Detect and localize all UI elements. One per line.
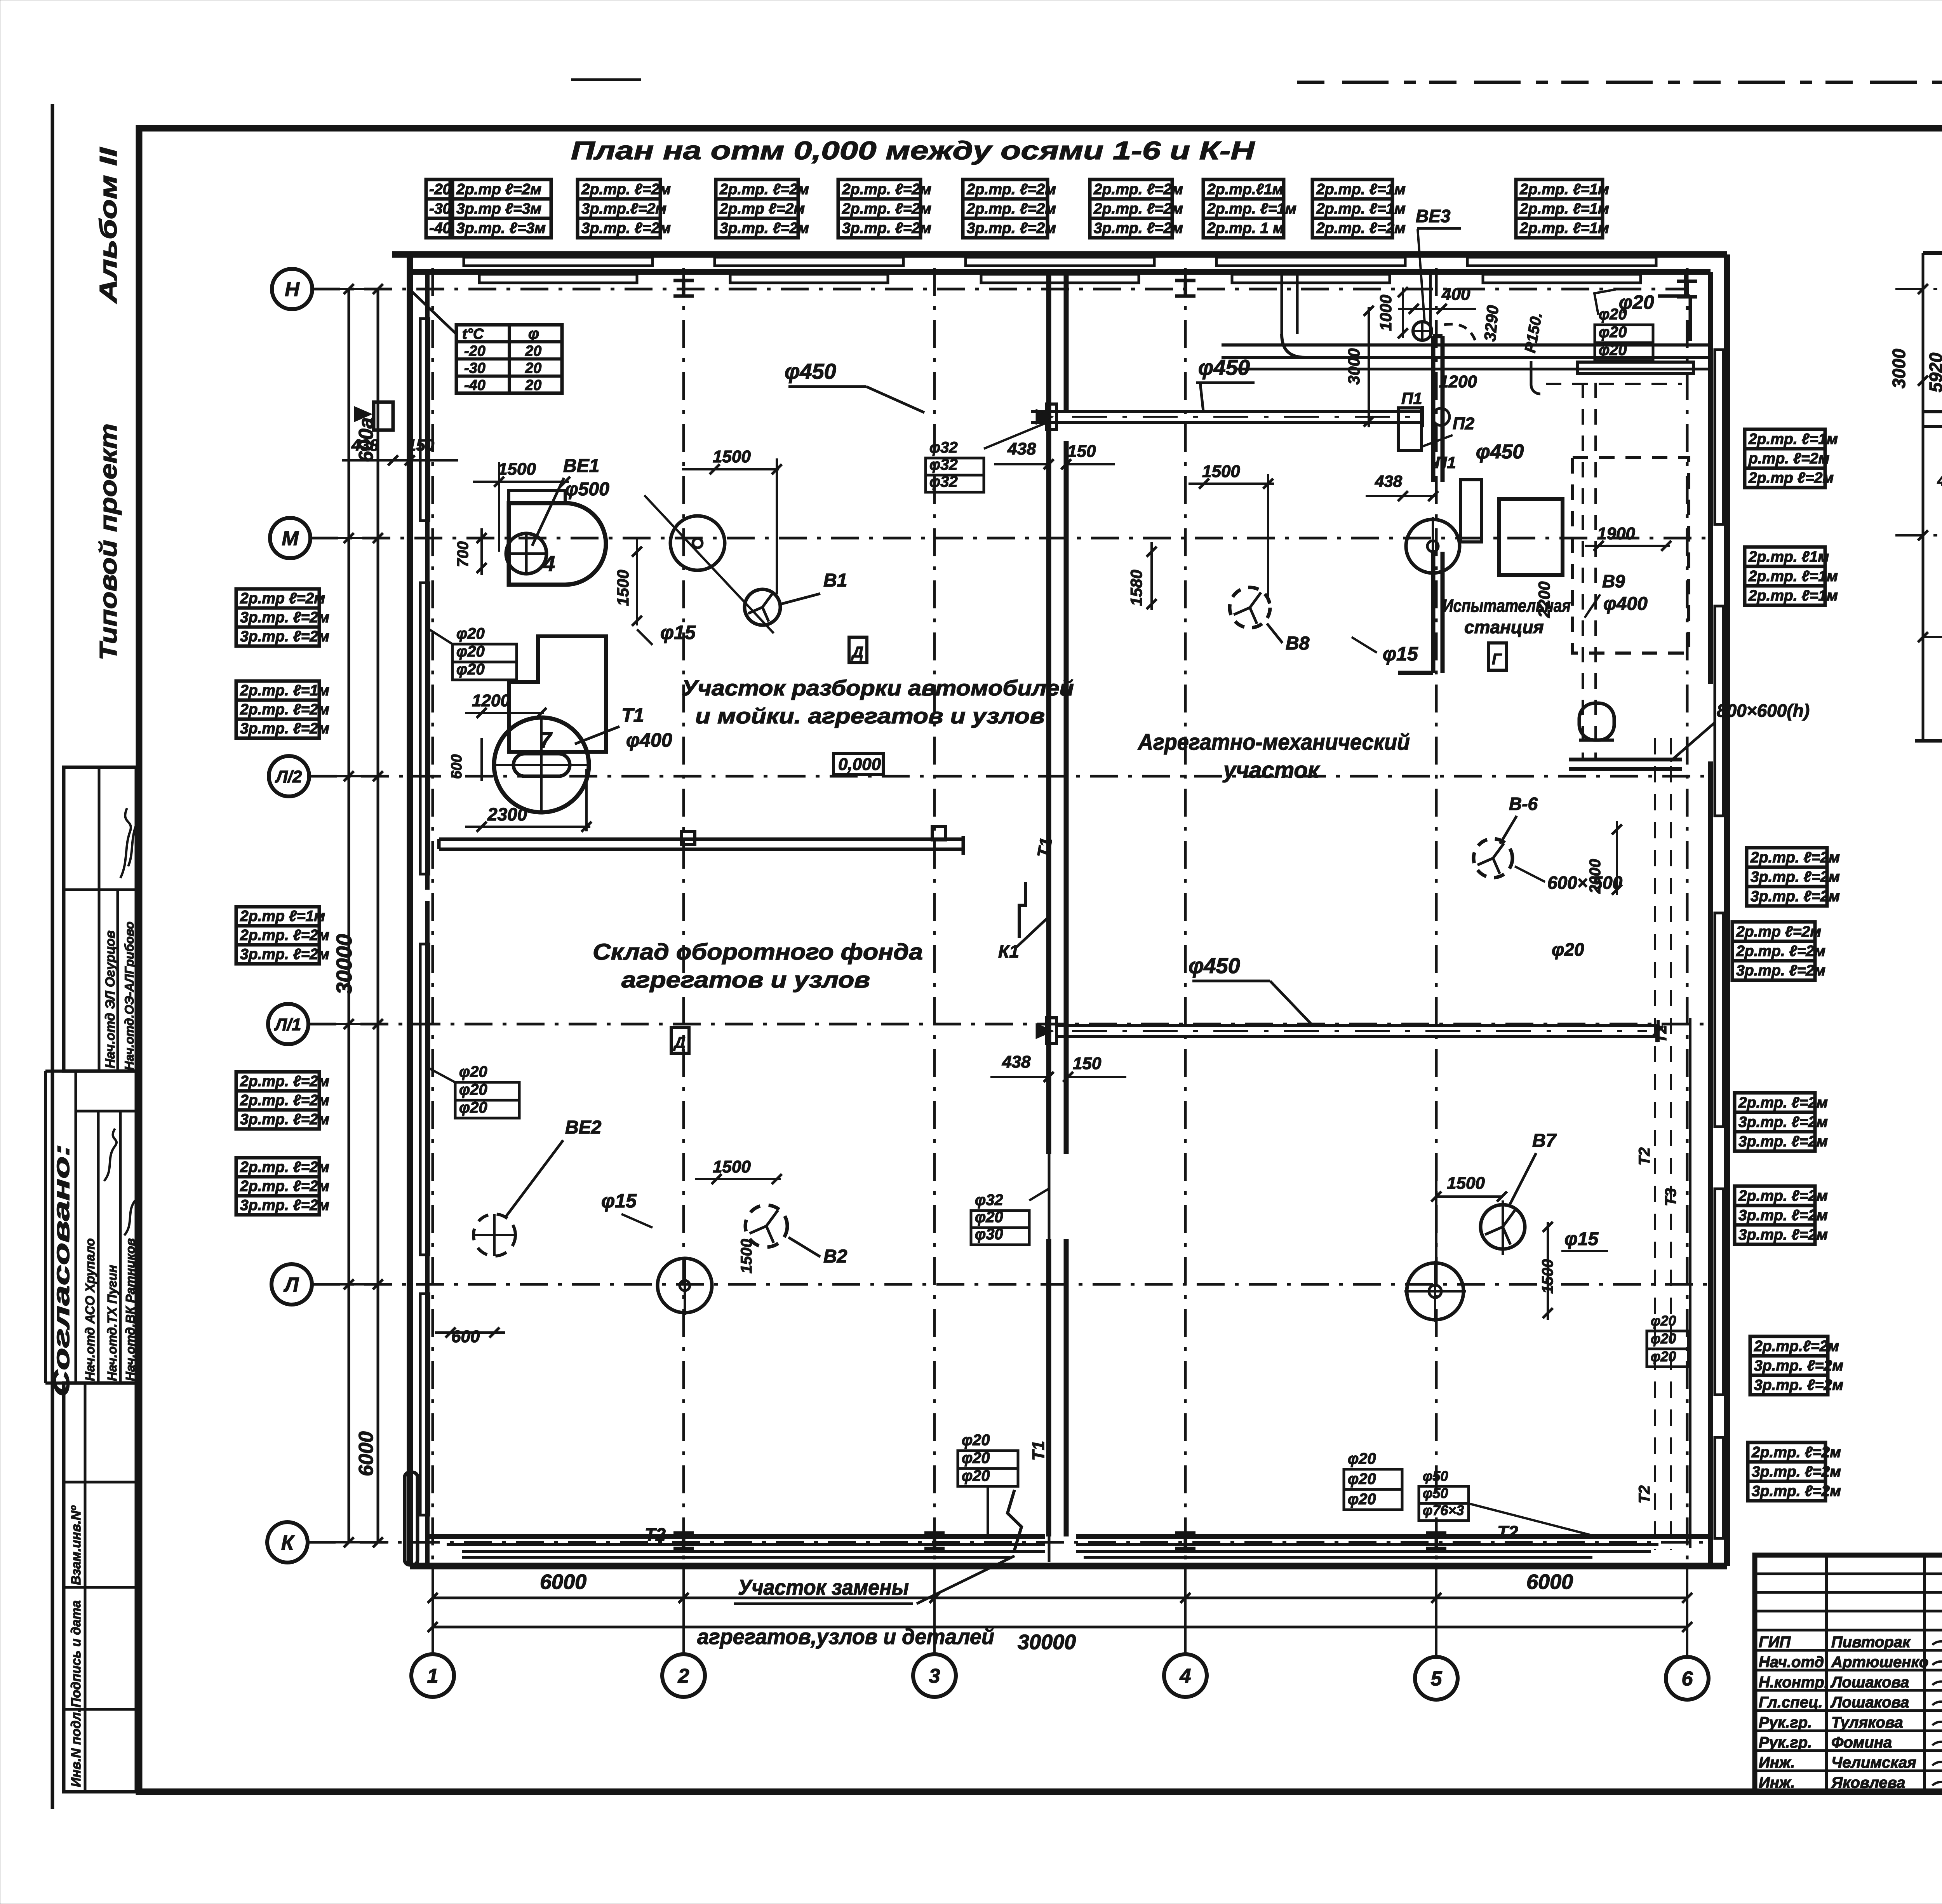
building top wall windows [464,257,653,266]
sidebar signatures upper [120,808,131,878]
svg-text:3р.тр. ℓ=2м: 3р.тр. ℓ=2м [1094,220,1183,237]
svg-text:2: 2 [678,1665,689,1688]
svg-text:агрегатов,узлов и деталей: агрегатов,узлов и деталей [697,1624,994,1649]
svg-text:Нач.отд АСО Хрупало: Нач.отд АСО Хрупало [83,1238,97,1381]
left pipe table group 5 [236,1158,319,1215]
svg-text:Д: Д [673,1034,686,1051]
svg-text:φ500: φ500 [565,479,609,500]
axis 6 vertical dash-dot [1686,268,1689,1566]
svg-text:2р.тр. ℓ=2м: 2р.тр. ℓ=2м [842,200,931,217]
svg-text:2р.тр.ℓ1м: 2р.тр.ℓ1м [1207,181,1284,198]
dim 1200 T1 [465,712,544,714]
dim 1500 right room [1189,483,1274,485]
svg-text:1580: 1580 [1127,570,1145,606]
svg-text:1200: 1200 [1439,372,1477,391]
svg-text:Т2: Т2 [1653,1025,1670,1043]
svg-text:1200: 1200 [472,691,510,710]
svg-text:3р.тр. ℓ=2м: 3р.тр. ℓ=2м [720,220,809,237]
svg-text:Л/2: Л/2 [275,767,302,786]
svg-text:станция: станция [1464,617,1544,637]
svg-text:2р.тр. ℓ=2м: 2р.тр. ℓ=2м [1738,1188,1828,1204]
wall vent left with dims 438 150 [354,406,372,422]
svg-text:φ20: φ20 [456,661,485,678]
svg-text:3р.тр. ℓ=2м: 3р.тр. ℓ=2м [1754,1357,1843,1374]
right pipe table group 6 [1735,1186,1815,1244]
axis circle M [270,518,310,558]
svg-text:-30: -30 [429,200,451,217]
svg-text:В2: В2 [823,1246,847,1267]
svg-text:К1: К1 [998,941,1019,962]
svg-text:6: 6 [1682,1668,1693,1690]
svg-text:2р.тр. ℓ=1м: 2р.тр. ℓ=1м [240,682,329,699]
dashed riser pair upper right [1582,383,1584,760]
sign G box [1489,643,1507,670]
svg-text:Агрегатно-механический: Агрегатно-механический [1137,730,1410,755]
svg-text:φ450: φ450 [1189,953,1240,978]
svg-text:φ400: φ400 [1603,594,1648,614]
building bottom wall [410,1563,1727,1570]
svg-text:2р.тр. ℓ=1м: 2р.тр. ℓ=1м [1519,220,1609,237]
dim 1500 B7 top [1436,1195,1502,1198]
top pipe label table group 5 [963,179,1048,238]
svg-text:2р.тр. ℓ=2м: 2р.тр. ℓ=2м [240,1092,329,1109]
secondary plan bottom line [1915,739,1942,743]
svg-text:М: М [282,528,299,550]
svg-text:6000: 6000 [540,1570,586,1594]
pipe T2 bottom lower strips [462,1556,1010,1559]
svg-text:φ20: φ20 [1651,1331,1676,1347]
pipe F450 upper double line [1031,410,1423,413]
svg-text:438: 438 [1375,472,1403,490]
svg-text:3000: 3000 [1345,348,1363,385]
svg-text:-40: -40 [464,377,486,394]
svg-text:2р.тр. ℓ=1м: 2р.тр. ℓ=1м [1519,181,1609,198]
svg-text:Согласовано:: Согласовано: [49,1144,74,1397]
svg-text:П2: П2 [1453,414,1475,433]
svg-text:0,000: 0,000 [838,755,881,774]
svg-text:3р.тр. ℓ=2м: 3р.тр. ℓ=2м [240,628,329,645]
tank T1 big circle [494,718,589,812]
svg-text:t°C: t°C [462,326,484,342]
svg-text:Челимская: Челимская [1831,1754,1916,1771]
svg-text:3р.тр. ℓ=2м: 3р.тр. ℓ=2м [1738,1226,1828,1243]
svg-text:600: 600 [451,1327,480,1346]
svg-text:2р.тр. ℓ=2м: 2р.тр. ℓ=2м [240,927,329,944]
fan B2 dashed [745,1205,787,1247]
svg-text:438: 438 [351,436,379,454]
svg-text:2р.тр. ℓ=1м: 2р.тр. ℓ=1м [1748,587,1838,604]
svg-text:150: 150 [1073,1054,1102,1073]
svg-text:700: 700 [454,541,472,567]
svg-text:Г: Г [1492,651,1502,668]
svg-text:1900: 1900 [1597,524,1635,543]
svg-text:800×600(h): 800×600(h) [1717,700,1810,721]
axis circle L/2 [269,756,309,796]
right pipe table group 5 [1735,1093,1815,1151]
svg-text:-40: -40 [429,220,451,237]
svg-text:2р.тр ℓ=2м: 2р.тр ℓ=2м [1748,470,1834,486]
svg-text:2р.тр. ℓ=2м: 2р.тр. ℓ=2м [1093,181,1183,198]
ceiling fan circle left room [670,516,725,570]
svg-text:3р.тр. ℓ=2м: 3р.тр. ℓ=2м [1736,962,1825,979]
svg-text:1500: 1500 [498,460,536,479]
svg-text:В8: В8 [1286,633,1310,654]
bottom dimension line 6000 bays [433,1597,1687,1599]
right pipe table group 8 [1748,1442,1825,1501]
svg-text:Нач.отд ЭЛ Огурцов: Нач.отд ЭЛ Огурцов [103,930,118,1068]
left pipe table group 3 [236,907,319,964]
svg-text:3р.тр. ℓ=2м: 3р.тр. ℓ=2м [1754,1377,1843,1394]
svg-text:Подпись и дата: Подпись и дата [69,1600,84,1707]
axis L horizontal dash-dot [312,1283,1711,1286]
svg-text:3290: 3290 [1481,305,1502,342]
small equipment near wall top [1398,408,1422,451]
pipe T2 bottom left segment [447,1543,1045,1546]
pipe T2 bottom right segment [1076,1543,1658,1546]
svg-text:К: К [281,1532,295,1554]
dim 1900 test station [1585,545,1670,547]
big circle axis L right [1407,1263,1463,1320]
svg-text:3р.тр. ℓ=2м: 3р.тр. ℓ=2м [1738,1114,1828,1131]
svg-text:φ20: φ20 [456,625,485,642]
svg-text:агрегатов и узлов: агрегатов и узлов [621,967,870,993]
axis circle K [267,1522,308,1563]
fan B6 dashed [1474,839,1512,878]
svg-text:2р.тр. ℓ=1м: 2р.тр. ℓ=1м [1316,200,1406,217]
top pipe label table group 8 [1312,179,1392,238]
svg-text:φ20: φ20 [1599,306,1627,323]
platform under B9 [1569,758,1682,761]
svg-text:Т2: Т2 [1636,1485,1653,1503]
svg-text:Участок разборки автомобилей: Участок разборки автомобилей [682,676,1074,700]
svg-text:150: 150 [407,436,434,454]
left pipe table group 2 [236,681,319,738]
svg-text:Артюшенко: Артюшенко [1831,1654,1928,1671]
svg-text:φ32: φ32 [929,473,958,490]
svg-text:-30: -30 [464,360,486,376]
right side dashed risers [1654,738,1656,1550]
svg-text:Т1: Т1 [621,704,644,726]
svg-text:φ20: φ20 [962,1467,990,1484]
riser T1 upper segment [1048,286,1051,412]
svg-text:2р.тр.ℓ=2м: 2р.тр.ℓ=2м [1754,1338,1839,1355]
dim 2300 T1 [465,826,590,828]
svg-text:3р.тр. ℓ=2м: 3р.тр. ℓ=2м [1751,888,1840,905]
svg-text:ВЕ2: ВЕ2 [565,1117,602,1138]
axis L/2 horizontal dash-dot [309,775,1711,778]
svg-text:2р.тр. ℓ=1м: 2р.тр. ℓ=1м [1519,200,1609,217]
svg-text:φ20: φ20 [1599,341,1627,359]
svg-text:3р.тр. ℓ=3м: 3р.тр. ℓ=3м [456,220,546,237]
axis 4 vertical dash-dot [1184,268,1187,1566]
axis M horizontal dash-dot [310,537,1711,540]
svg-text:2р.тр. ℓ=2м: 2р.тр. ℓ=2м [719,181,809,198]
svg-text:20: 20 [525,343,541,359]
right pipe table group 2 [1745,547,1825,605]
svg-text:2р.тр. ℓ=2м: 2р.тр. ℓ=2м [240,1159,329,1176]
svg-text:3р.тр. ℓ=2м: 3р.тр. ℓ=2м [1752,1463,1841,1480]
top right pipe vertical elbow [1282,272,1297,334]
window strip below top right pipes [1578,362,1693,374]
svg-text:2р.тр ℓ=2м: 2р.тр ℓ=2м [456,181,541,198]
svg-text:30000: 30000 [332,934,356,995]
svg-text:φ15: φ15 [1564,1229,1599,1249]
axis L/1 horizontal dash-dot [308,1023,1711,1026]
svg-text:1500: 1500 [713,447,751,466]
svg-text:Т3: Т3 [1662,1188,1679,1206]
svg-text:φ15: φ15 [601,1190,637,1212]
svg-text:φ20: φ20 [962,1449,990,1467]
F20 corner pipe bend [1658,271,1686,275]
svg-text:2р.тр ℓ=2м: 2р.тр ℓ=2м [240,590,325,607]
svg-text:Склад оборотного фонда: Склад оборотного фонда [593,939,923,965]
axis K horizontal dash-dot [308,1541,1711,1544]
elevation 0.000 box [834,754,883,775]
svg-text:φ30: φ30 [975,1226,1003,1243]
svg-text:2р.тр. ℓ=2м: 2р.тр. ℓ=2м [1316,220,1406,237]
svg-text:1500: 1500 [738,1239,755,1273]
svg-text:3р.тр. ℓ=2м: 3р.тр. ℓ=2м [581,220,671,237]
building right wall windows [1715,350,1723,524]
svg-text:2р.тр. ℓ=2м: 2р.тр. ℓ=2м [1093,200,1183,217]
svg-text:2р.тр. ℓ=1м: 2р.тр. ℓ=1м [1748,568,1838,585]
svg-text:Л: Л [283,1274,299,1296]
svg-text:-20: -20 [429,181,451,198]
svg-text:7: 7 [539,728,553,753]
svg-text:Пивторак: Пивторак [1831,1634,1911,1651]
top pipe label table group 1 with temperature column [426,179,450,238]
dim 1500 sklad [695,1178,781,1180]
sign D left room [849,637,867,663]
top pipe label table group 7 [1203,179,1284,238]
building left wall [407,254,413,1566]
svg-text:φ400: φ400 [626,729,672,751]
svg-text:Альбом II: Альбом II [95,147,122,304]
svg-text:φ20: φ20 [459,1081,487,1098]
svg-text:2р.тр. ℓ=2м: 2р.тр. ℓ=2м [966,181,1056,198]
svg-text:6000: 6000 [1526,1570,1573,1594]
svg-text:438: 438 [1002,1052,1031,1071]
svg-text:Инж.: Инж. [1759,1754,1795,1771]
svg-text:2р.тр. ℓ=2м: 2р.тр. ℓ=2м [240,701,329,718]
secondary plan outer dimension verticals [1922,253,1925,741]
svg-text:3: 3 [929,1665,940,1688]
svg-text:Т2: Т2 [1497,1522,1518,1542]
svg-text:φ50: φ50 [1423,1468,1448,1484]
dim 1500 over VE1 [473,481,569,483]
test station wall vertical [1431,336,1436,482]
axis 5 vertical dash-dot [1435,268,1438,1566]
axis circle 2 [662,1654,705,1697]
test station dashed room [1573,457,1689,653]
svg-text:2р.тр. ℓ=2м: 2р.тр. ℓ=2м [1736,943,1825,960]
svg-text:3р.тр. ℓ=2м: 3р.тр. ℓ=2м [1752,1483,1841,1500]
svg-text:φ20: φ20 [1599,324,1627,341]
top right pipes horizontal [1222,343,1711,347]
top pipe label table group 4 [838,179,921,238]
column symbols on walls [673,280,694,296]
svg-text:Яковлева: Яковлева [1831,1774,1905,1791]
svg-text:2р.тр. ℓ=2м: 2р.тр. ℓ=2м [842,181,931,198]
svg-text:φ32: φ32 [929,456,958,473]
svg-text:φ20: φ20 [1348,1450,1376,1467]
svg-text:Типовой проект: Типовой проект [95,423,122,660]
svg-text:2р.тр ℓ=2м: 2р.тр ℓ=2м [1736,923,1821,940]
axis circle L/1 [268,1004,308,1044]
svg-text:2р.тр. ℓ=1м: 2р.тр. ℓ=1м [1748,431,1838,448]
right pipe table group 7 [1750,1336,1828,1395]
svg-text:φ50: φ50 [1423,1485,1448,1501]
svg-text:-20: -20 [464,343,486,359]
riser T1 vertical line [1048,894,1051,1562]
svg-text:3р.тр. ℓ=2м: 3р.тр. ℓ=2м [240,1111,329,1128]
svg-text:30000: 30000 [1018,1631,1076,1654]
svg-text:φ20: φ20 [459,1063,487,1080]
svg-text:20: 20 [525,360,541,376]
top pipe label table group 6 [1090,179,1172,238]
svg-text:3р.тр ℓ=3м: 3р.тр ℓ=3м [456,200,541,217]
temperature table [456,325,562,393]
svg-text:Т2: Т2 [645,1524,666,1545]
svg-text:438: 438 [1937,473,1942,489]
svg-text:Т2: Т2 [1636,1147,1653,1165]
svg-text:П1: П1 [1435,453,1456,472]
svg-text:3р.тр. ℓ=2м: 3р.тр. ℓ=2м [1738,1133,1828,1150]
page border left thin line [51,104,54,1809]
test station inner solid rect [1499,499,1563,575]
svg-text:1500: 1500 [1447,1174,1485,1193]
svg-text:2р.тр. ℓ=2м: 2р.тр. ℓ=2м [1750,849,1840,866]
svg-text:1000: 1000 [1376,295,1395,331]
svg-text:Л/1: Л/1 [274,1015,301,1034]
svg-text:П1: П1 [1401,389,1422,408]
top pipe label table group 2 [578,179,660,238]
svg-text:1500: 1500 [713,1157,751,1176]
svg-text:Инж.: Инж. [1759,1774,1795,1791]
svg-text:3р.тр. ℓ=2м: 3р.тр. ℓ=2м [240,1197,329,1214]
svg-text:φ20: φ20 [1552,939,1584,960]
axis 2 vertical dash-dot [682,268,685,1566]
svg-text:φ20: φ20 [975,1209,1003,1226]
svg-text:Н.контр.: Н.контр. [1759,1674,1829,1691]
svg-text:2р.тр. ℓ=2м: 2р.тр. ℓ=2м [581,181,671,198]
left outside pilaster bottom [405,1472,418,1565]
svg-text:Фомина: Фомина [1831,1734,1892,1751]
svg-text:3000: 3000 [1889,348,1909,388]
svg-text:438: 438 [1007,439,1036,458]
svg-text:2р.тр. ℓ=2м: 2р.тр. ℓ=2м [1738,1094,1828,1111]
svg-text:2р.тр. ℓ=1м: 2р.тр. ℓ=1м [1316,181,1406,198]
svg-text:5920: 5920 [1926,352,1942,392]
svg-text:3р.тр. ℓ=2м: 3р.тр. ℓ=2м [967,220,1056,237]
right pipe table group 4 [1732,922,1815,980]
unit VE1 inner circle [506,533,546,574]
svg-text:Лошакова: Лошакова [1830,1694,1909,1711]
svg-text:Нач.отд: Нач.отд [1759,1654,1824,1671]
fan B8 dashed [1230,587,1270,628]
title block left rows [1755,1573,1942,1575]
svg-text:Участок замены: Участок замены [738,1575,909,1599]
building right wall [1724,254,1730,1566]
svg-text:2р.тр. 1 м: 2р.тр. 1 м [1207,220,1284,237]
svg-text:3р.тр. ℓ=2м: 3р.тр. ℓ=2м [1738,1207,1828,1224]
svg-text:2р.тр ℓ=1м: 2р.тр ℓ=1м [240,908,325,925]
svg-text:φ20: φ20 [1651,1313,1676,1329]
svg-text:2р.тр ℓ=2м: 2р.тр ℓ=2м [719,200,805,217]
svg-text:участок: участок [1222,758,1320,783]
svg-text:ВЕ3: ВЕ3 [1416,206,1451,226]
svg-text:1500: 1500 [1202,462,1240,481]
svg-text:ВЕ1: ВЕ1 [563,456,599,476]
svg-text:φ450: φ450 [1476,441,1524,463]
svg-text:Н: Н [285,279,300,301]
svg-text:3р.тр. ℓ=2м: 3р.тр. ℓ=2м [240,946,329,963]
axis circle L [271,1264,312,1305]
svg-text:150: 150 [1067,442,1096,461]
temperature table leader [412,291,456,334]
fan B1 [745,589,780,625]
svg-text:6000: 6000 [355,1431,378,1476]
svg-text:φ20: φ20 [1348,1491,1376,1508]
svg-text:2р.тр. ℓ1м: 2р.тр. ℓ1м [1748,549,1829,565]
axis circle 1 [411,1654,454,1697]
svg-text:φ: φ [528,325,539,342]
title block outline [1755,1555,1942,1791]
svg-text:φ32: φ32 [929,439,958,456]
svg-text:Нач.отд.ТХ Пугин: Нач.отд.ТХ Пугин [105,1265,119,1381]
svg-text:Тулякова: Тулякова [1831,1714,1903,1731]
svg-text:φ76×3: φ76×3 [1423,1502,1464,1518]
svg-text:Т1: Т1 [1034,836,1056,859]
svg-text:Т1: Т1 [1029,1441,1048,1461]
bottom dimension line 30000 [433,1626,1687,1629]
svg-text:φ20: φ20 [456,643,485,660]
svg-text:Гл.спец.: Гл.спец. [1759,1694,1823,1711]
svg-text:Лошакова: Лошакова [1830,1674,1909,1691]
svg-text:4: 4 [543,551,555,576]
sidebar signature squiggles middle [104,1129,117,1181]
big circle on axis L left [658,1258,712,1313]
svg-text:1500: 1500 [614,570,632,606]
axis circle 5 bottom [1415,1657,1458,1700]
svg-text:φ32: φ32 [975,1192,1003,1209]
svg-text:600× 500: 600× 500 [1547,873,1623,893]
svg-text:Рук.гр.: Рук.гр. [1759,1714,1812,1731]
svg-text:В9: В9 [1602,571,1625,591]
svg-text:3р.тр. ℓ=2м: 3р.тр. ℓ=2м [240,720,329,737]
top pipe label table group 3 [716,179,798,238]
fan B7 [1481,1205,1525,1249]
secondary plan axis M [1895,534,1942,537]
svg-text:Нач.отд.ОЭ-АЛГрибово: Нач.отд.ОЭ-АЛГрибово [122,922,136,1070]
svg-text:В1: В1 [823,570,847,591]
svg-text:φ20: φ20 [459,1099,487,1116]
svg-text:φ15: φ15 [660,622,696,643]
right pipe table group 3 [1747,848,1827,906]
svg-text:3р.тр.ℓ=2м: 3р.тр.ℓ=2м [581,200,666,217]
fan circle right room axis M [1406,519,1460,573]
break symbol bottom [1008,1490,1021,1550]
B9 equipment symbol [1579,703,1614,740]
svg-text:Рук.гр.: Рук.гр. [1759,1734,1812,1751]
building top wall [392,251,1727,258]
building left wall windows [420,319,429,521]
right pipe table group 1 [1745,429,1825,488]
svg-text:2р.тр. ℓ=2м: 2р.тр. ℓ=2м [240,1073,329,1090]
left pipe table group 4 [236,1072,319,1129]
fan VE2 dashed [473,1214,515,1256]
svg-text:400: 400 [1441,285,1470,304]
